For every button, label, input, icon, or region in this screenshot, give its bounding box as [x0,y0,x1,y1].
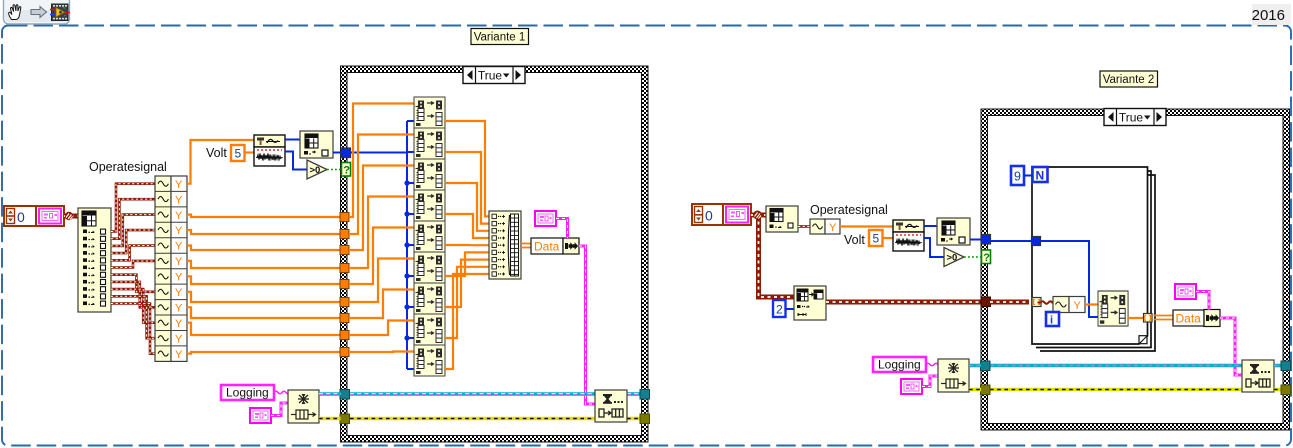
case 2 olive tunnel right [1281,385,1291,395]
case 1 left border tunnels [340,213,349,222]
olive tunnel right [640,414,650,424]
blue distribution vertical [406,121,408,369]
wire index array to signal row [111,246,155,261]
dynamic data wire tunnel to Data v2 [1154,315,1174,317]
svg-text:Y: Y [175,241,183,253]
svg-text:Y: Y [829,222,837,234]
wire Logging to express VI [274,391,289,394]
index array function [78,208,111,312]
insert into array node 3 [414,159,445,190]
dynamic data wire merge to Data [521,243,531,245]
insert into array node v2 [1098,291,1128,326]
svg-text:Variante 2: Variante 2 [1103,74,1155,86]
wire index array to signal row [111,289,155,323]
wire 2 to reshape [786,308,795,310]
comparison greater than 0 v2 [944,248,964,267]
svg-text:Y: Y [175,256,183,268]
numeric constant 9 [1011,166,1024,185]
label Logging v2 [873,357,926,372]
blue wire case tunnel to loop tunnel [990,240,1032,242]
wire index array to signal row [111,304,155,354]
reference wire write node to tunnel [627,392,642,396]
magenta wire recorder to convert v2 [1196,292,1209,310]
svg-text:Operatesignal: Operatesignal [810,203,888,217]
numeric cluster constant 0 [4,206,64,226]
wire cluster branch to reshape [759,215,795,297]
svg-text:Variante 1: Variante 1 [474,32,526,44]
svg-text:?: ? [343,165,350,177]
teal tunnel right [640,390,650,400]
teal tunnel left [340,390,350,400]
write to measurement file node [595,390,627,422]
case 1 blue tunnel [341,148,351,158]
svg-text:Y: Y [175,272,183,284]
wire index array to signal row [111,184,155,232]
svg-text:2016: 2016 [1252,7,1285,24]
svg-text:N: N [1036,169,1045,183]
signal generator node v2 [810,219,840,234]
loop count N terminal [1033,167,1048,182]
svg-text:>0: >0 [310,165,321,176]
insert into array node 4 [414,190,445,221]
olive tunnel left [340,414,350,424]
label Variante 1 [471,29,529,45]
index array function v2 [766,206,798,232]
svg-text:2: 2 [776,303,783,317]
label Logging [221,385,274,400]
insert into array node 7 [414,283,445,314]
reference wire tunnel to write node [350,392,595,396]
wire index array to signal row [111,296,155,338]
svg-text:?: ? [983,252,990,264]
wire knot v2 [753,211,762,220]
trigger express VI v2 [893,220,924,251]
logging express VI v2 [938,359,969,392]
boolean wire to case selector [327,169,342,171]
svg-text:Y: Y [175,194,183,206]
insert into array node 9 [414,345,445,376]
error wire write node to tunnel [627,417,642,421]
svg-text:Y: Y [175,210,183,222]
reference wire express to tunnel v2 [969,364,981,368]
reference wire to write node v2 [990,364,1242,368]
blue wire to insert node v2 [1040,241,1098,317]
case 2 selector label True [1104,109,1166,126]
case 1 selector terminal [342,163,351,177]
toolbar hand tool icon [9,5,21,20]
error wire express to tunnel v2 [969,388,981,392]
file recorder constant [250,408,271,423]
wire index array to signal row [111,275,155,292]
2016 version label [1252,4,1291,25]
waveform attributes icon v2 [1175,284,1196,299]
wire trigger to matrix node [285,139,300,141]
wire cluster to index array v2 [751,213,766,218]
convert to dynamic data node v2 [1204,310,1220,327]
toolbar [4,0,70,24]
wire trigger to greater-than-zero [285,152,307,170]
case 2 blue tunnel [981,235,991,245]
svg-text:Volt: Volt [844,233,865,247]
loop auto-index tunnel [1032,298,1041,307]
insert into array node 1 [414,97,445,128]
label Variante 2 [1100,71,1158,87]
signal generator node loop [1053,297,1085,313]
svg-text:Y: Y [175,333,183,345]
wire trigger to comparison v2 [924,238,944,257]
error wire express VI to tunnel [319,417,341,421]
wire cluster to index array [64,214,78,219]
boolean wire to selector v2 [964,256,982,258]
svg-text:Y: Y [1074,300,1082,312]
numeric constant 5 [231,145,245,161]
signal generator strip [155,176,187,361]
svg-text:Y: Y [175,349,183,361]
wire signal row 1 to trigger VI [187,140,254,184]
svg-text:Logging: Logging [226,386,269,400]
svg-text:0: 0 [17,209,25,225]
iteration terminal i [1046,312,1059,326]
svg-text:Data: Data [1176,312,1202,326]
magenta wire convert to write node [579,246,595,404]
svg-text:Volt: Volt [206,146,227,160]
wire index array to signal v2 [798,225,810,228]
wire matrix to blue tunnel v2 [970,239,982,241]
comparison greater than 0 [307,160,327,179]
wires insert nodes to merge node [445,121,489,216]
svg-text:Data: Data [534,240,560,254]
svg-text:Y: Y [175,318,183,330]
reference wire express VI to tunnel [319,392,341,396]
svg-text:Y: Y [175,303,183,315]
reference wire out v2 [1274,364,1284,368]
insert into array node 5 [414,221,445,252]
magenta wire recorder to express VI [271,403,288,416]
blue wire tunnel to distribution [350,152,407,154]
wire index array to signal row [111,261,155,268]
insert into array node 2 [414,128,445,159]
case 2 brown tunnel [981,297,991,307]
wire 5 to trigger v2 [883,237,894,239]
label Data [531,238,563,254]
reshape array node [794,286,826,320]
magenta wire convert to write v2 [1220,318,1242,375]
merge signals node [489,211,521,279]
svg-text:Y: Y [175,287,183,299]
svg-text:>0: >0 [947,253,958,264]
svg-text:Y: Y [175,225,183,237]
svg-text:True: True [478,69,503,83]
write to measurement file node v2 [1242,360,1274,392]
wire index array to signal row [111,282,155,307]
magenta wire recorder to express v2 [922,376,938,387]
magenta wire recorder to convert [556,219,568,239]
wire Y to insert node v2 [1085,303,1098,305]
toolbar run arrow icon [31,7,47,18]
case 2 teal tunnel left [981,361,991,371]
waveform attributes icon [535,211,556,226]
numeric cluster constant 0 variant 2 [692,204,751,225]
wire trigger to matrix v2 [924,225,937,227]
wire reshape to case 2 tunnel [826,300,982,305]
svg-text:Y: Y [175,179,183,191]
svg-text:0: 0 [705,208,713,224]
file recorder constant v2 [901,379,922,394]
case structure 2 border [981,109,1290,430]
orange wires tunnels to insert nodes [349,104,414,218]
case 1 selector label True [463,67,525,84]
numeric constant 5 v2 [869,230,883,246]
case structure 1 border [341,66,649,442]
wire index array to signal row [111,230,155,253]
svg-text:9: 9 [1014,170,1021,184]
wire matrix node to case tunnel [333,152,341,154]
wire index array to signal row [111,199,155,239]
disable structure stacked frames [1032,167,1155,351]
wires signal strip to case tunnels [187,215,344,217]
wire 5 to trigger VI [245,151,255,153]
trigger express VI [254,135,285,166]
svg-text:Operatesignal: Operatesignal [89,160,167,174]
case 2 olive tunnel left [981,385,991,395]
svg-text:i: i [1050,315,1053,327]
loop output tunnel [1144,314,1153,323]
error wire out v2 [1274,388,1284,392]
wire index array to signal row [111,215,155,246]
error wire to write node v2 [990,388,1242,392]
case 2 teal tunnel right [1281,361,1291,371]
wire brown tunnel to loop tunnel [990,300,1029,305]
wire tunnel to signal node v2 [1038,301,1054,304]
loop blue tunnel [1032,237,1041,246]
toolbar VI film icon [50,4,70,21]
wire 9 to N [1024,175,1033,177]
matrix conversion node v2 [937,218,970,245]
insert into array node 8 [414,314,445,345]
svg-text:5: 5 [873,232,880,246]
svg-text:5: 5 [235,147,242,161]
page curl [1139,336,1147,344]
label Data v2 [1173,310,1204,326]
numeric constant 2 [773,300,786,317]
wire insert to output tunnel [1128,317,1144,319]
wire knot v1 [65,212,73,220]
logging express VI [288,390,319,423]
wire Logging to express VI v2 [926,363,938,366]
error wire tunnel to write node [350,417,595,421]
wire Y to trigger v2 [840,225,893,227]
case 2 selector terminal [982,250,991,264]
svg-text:True: True [1119,111,1144,125]
matrix conversion node [300,131,333,158]
insert into array node 6 [414,252,445,283]
svg-text:Logging: Logging [878,358,921,372]
convert to dynamic data node [563,238,579,254]
